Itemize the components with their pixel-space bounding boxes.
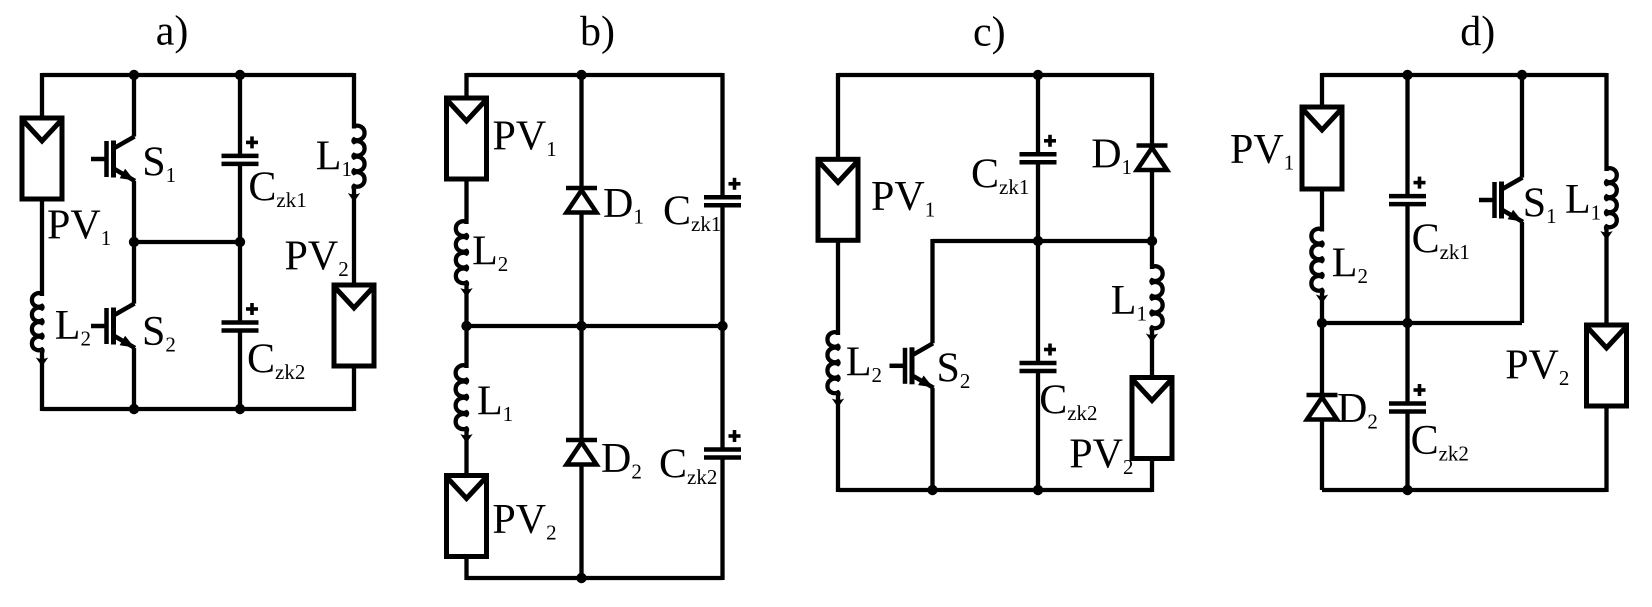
svg-text:PV1: PV1	[47, 203, 111, 251]
svg-text:PV2: PV2	[492, 497, 556, 545]
svg-text:PV1: PV1	[1230, 127, 1294, 175]
svg-text:PV1: PV1	[493, 114, 557, 162]
svg-text:L2: L2	[1332, 241, 1368, 289]
svg-text:b): b)	[580, 9, 615, 55]
svg-text:d): d)	[1460, 9, 1495, 55]
svg-text:Czk2: Czk2	[247, 337, 305, 385]
svg-text:Czk1: Czk1	[971, 152, 1029, 200]
svg-text:L1: L1	[477, 379, 513, 427]
svg-text:L2: L2	[472, 229, 508, 277]
svg-text:L2: L2	[55, 303, 91, 351]
svg-text:D2: D2	[601, 436, 642, 484]
svg-text:PV2: PV2	[1069, 432, 1133, 480]
svg-text:PV2: PV2	[1505, 343, 1569, 391]
svg-text:D1: D1	[1091, 132, 1132, 180]
svg-text:c): c)	[973, 10, 1006, 56]
svg-text:Czk1: Czk1	[1412, 217, 1470, 265]
svg-text:PV2: PV2	[285, 234, 349, 282]
svg-text:L1: L1	[1111, 278, 1147, 326]
svg-text:S2: S2	[937, 346, 971, 394]
svg-text:Czk1: Czk1	[248, 165, 306, 213]
svg-text:L1: L1	[1565, 177, 1601, 225]
svg-text:D2: D2	[1337, 386, 1378, 434]
svg-text:a): a)	[156, 9, 189, 55]
svg-text:L1: L1	[316, 134, 352, 182]
svg-text:Czk2: Czk2	[1411, 418, 1469, 466]
svg-text:S1: S1	[142, 140, 176, 188]
svg-text:PV1: PV1	[871, 174, 935, 222]
svg-text:L2: L2	[846, 340, 882, 388]
svg-text:S1: S1	[1523, 181, 1557, 229]
svg-text:Czk2: Czk2	[1039, 378, 1097, 426]
svg-text:S2: S2	[142, 309, 176, 357]
svg-text:D1: D1	[603, 181, 644, 229]
